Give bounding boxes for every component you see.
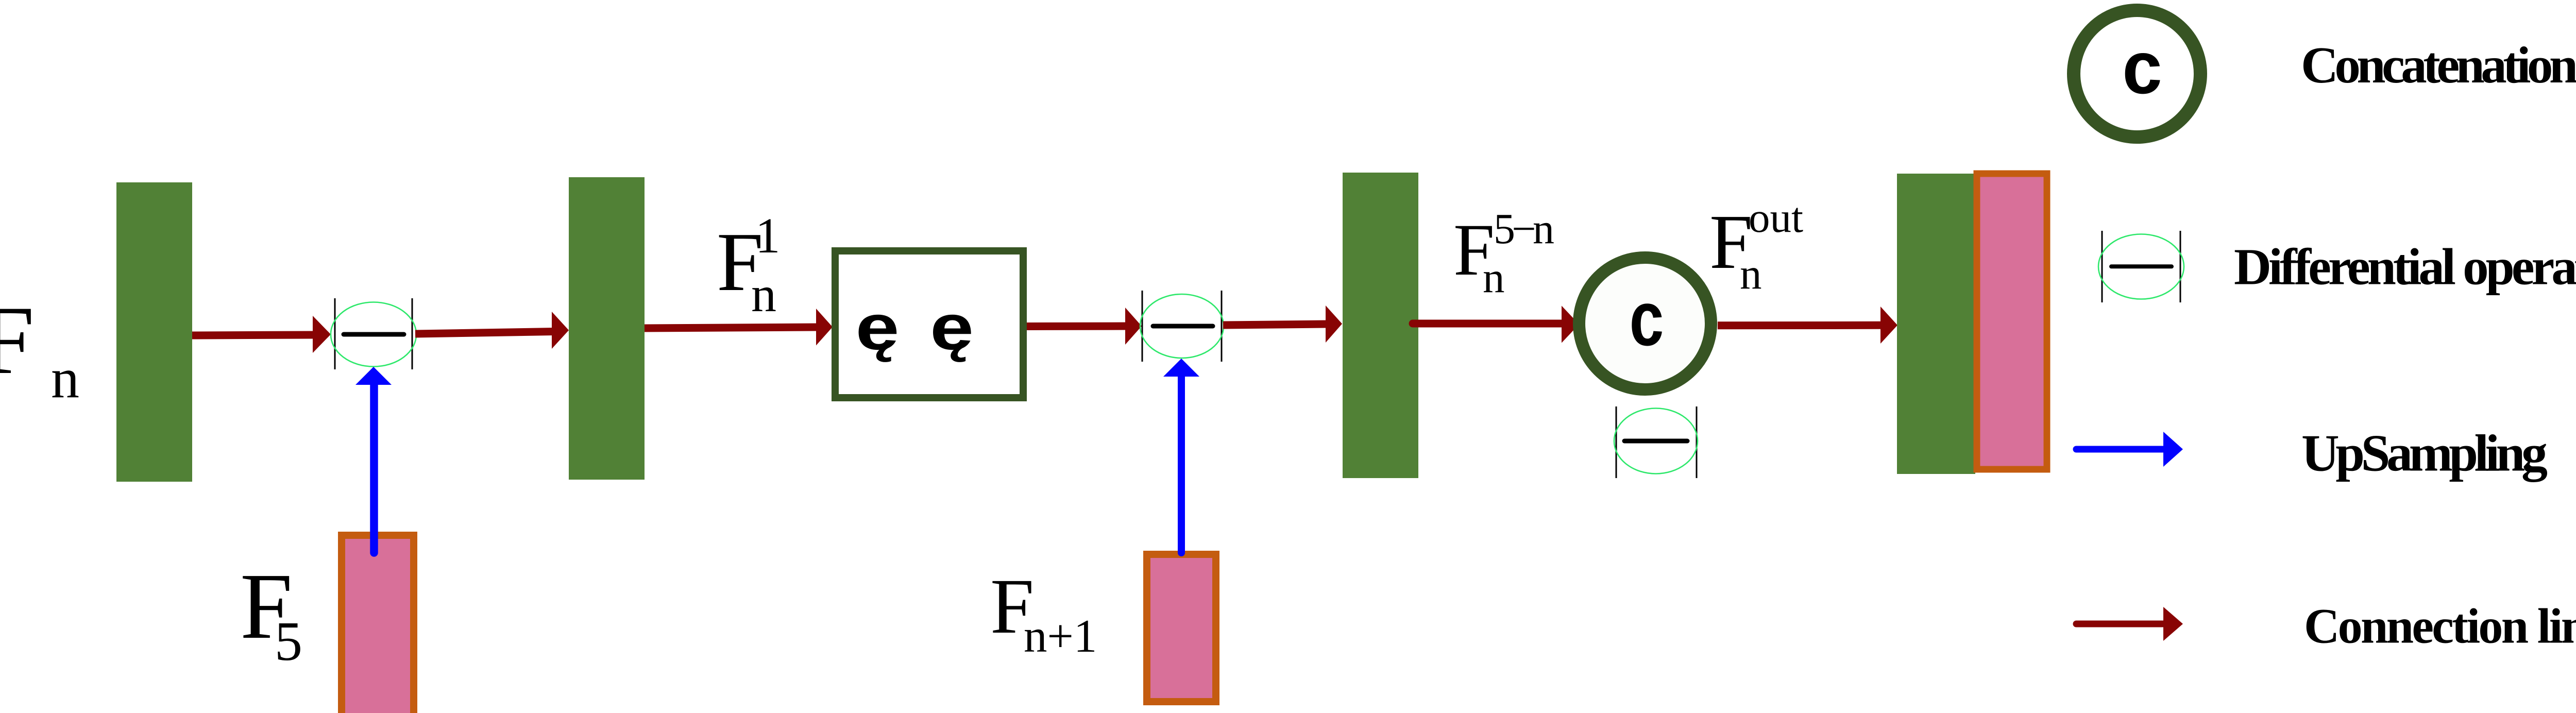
svg-text:n+1: n+1 [1024, 610, 1097, 662]
label F_n+1 [990, 563, 1097, 662]
differential operation 2 [1140, 291, 1224, 362]
label F_5 [240, 554, 302, 672]
svg-text:Differential operation: Differential operation [2234, 238, 2576, 296]
label F_n [0, 286, 79, 410]
svg-text:ę: ę [930, 291, 974, 363]
svg-text:n: n [51, 347, 79, 410]
svg-text:5−n: 5−n [1494, 205, 1554, 253]
svg-text:c: c [1630, 275, 1664, 362]
legend upsampling arrow (blue) [2076, 432, 2183, 467]
differential operation 1 [331, 298, 416, 369]
input box Fn+1 (pink with orange border) [1147, 554, 1216, 702]
connection arrow B: diff1 to bar2 [415, 312, 569, 349]
label F_n^1 [717, 208, 781, 322]
svg-text:Connection line: Connection line [2304, 599, 2576, 654]
output bar (green) [1897, 174, 1975, 474]
svg-text:n: n [751, 267, 776, 322]
concatenation circle (main) [1579, 258, 1711, 389]
feature bar 3 (green) [1343, 173, 1418, 478]
connection arrow E: diff2 to bar3 [1223, 305, 1342, 343]
svg-text:out: out [1749, 194, 1803, 241]
label F_n^5-n [1453, 205, 1554, 302]
feature bar 2 (green) [569, 177, 645, 480]
upsampling arrow 2 (blue, Fn+1 to diff2) [1163, 359, 1199, 553]
conv box (white, dark green border) [835, 251, 1023, 398]
svg-text:n: n [1483, 253, 1505, 302]
svg-text:c: c [2122, 26, 2162, 109]
svg-text:Concatenation: Concatenation [2301, 36, 2576, 94]
connection arrow D: box to diff2 [1027, 308, 1142, 345]
legend differential operation symbol [2098, 231, 2184, 302]
feature bar 1 (green) [116, 182, 192, 482]
input box F5 (pink with orange border) [342, 535, 414, 713]
output bar (pink with orange border) [1977, 174, 2047, 469]
connection arrow A: bar1 to diff1 [192, 316, 331, 353]
legend concatenation circle [2074, 10, 2200, 137]
connection arrow G: circle to output bars [1718, 307, 1897, 344]
connection arrow C: bar2 to conv box [645, 309, 833, 346]
svg-text:F: F [0, 286, 35, 395]
differential operation 3 (below circle) [1614, 406, 1698, 478]
connection arrow F: bar3 to concat circle [1413, 306, 1579, 343]
label F_n^out [1709, 194, 1803, 298]
svg-text:1: 1 [755, 208, 781, 263]
svg-text:ę: ę [856, 291, 900, 363]
svg-text:5: 5 [275, 611, 302, 672]
upsampling arrow 1 (blue, F5 to diff1) [355, 367, 392, 553]
svg-text:UpSampling: UpSampling [2301, 425, 2548, 483]
svg-text:n: n [1740, 250, 1762, 298]
legend connection arrow (dark red) [2076, 607, 2183, 641]
